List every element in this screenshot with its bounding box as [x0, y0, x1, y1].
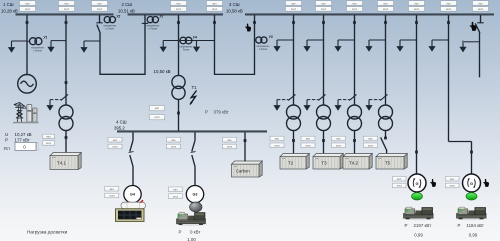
ground arrow on spare feeder — [459, 41, 466, 53]
generator G4 (left) — [124, 186, 141, 203]
button pair above feeder x=27.5 — [20, 1, 36, 11]
bus 1-2 СШ (left busbar segment) — [16, 13, 114, 15]
wire: grid infeed feeder from bus 1СШ — [26, 15, 28, 75]
svg-text:▪▪▪▪: ▪▪▪▪ — [316, 158, 319, 160]
ground arrow at T4 — [46, 100, 53, 111]
button pair above feeder x=416.5 — [409, 1, 425, 11]
open switch on spare feeder — [475, 23, 480, 32]
ground branch on G2 feeder — [432, 39, 449, 41]
svg-text:вкл: вкл — [368, 138, 373, 141]
upper ground branch on Т4.2 feeder — [338, 39, 355, 41]
bus 2 СШ busbar segment — [128, 13, 224, 15]
green status LED at G2 — [466, 193, 477, 200]
svg-text:вкл: вкл — [171, 139, 176, 142]
svg-text:откл: откл — [25, 8, 31, 11]
button pair above feeder x=66.5 — [59, 1, 75, 11]
svg-text:откл: откл — [176, 8, 182, 11]
upper ground branch on Т5 feeder — [369, 39, 386, 41]
svg-text:P: P — [5, 137, 8, 142]
svg-text:и Линия: и Линия — [33, 50, 42, 52]
button pair above feeder x=99.5 — [92, 1, 108, 11]
ground branch on grid infeed feeder — [12, 40, 28, 42]
svg-text:и Линия: и Линия — [149, 29, 158, 31]
junction on tie left leg — [213, 21, 216, 24]
svg-text:1,00: 1,00 — [187, 237, 196, 241]
svg-text:Уст: Уст — [4, 146, 11, 151]
lower disconnector branch on Т5 feeder — [369, 94, 388, 100]
svg-text:10,28 кВ: 10,28 кВ — [1, 9, 18, 14]
svg-text:и Линия: и Линия — [259, 49, 268, 51]
ground branch on T4 feeder (upper) — [51, 40, 66, 42]
lower disconnector branch on Т2 feeder — [277, 94, 296, 100]
svg-text:вкл: вкл — [46, 136, 51, 139]
svg-text:откл: откл — [46, 142, 52, 145]
transformer Т4 (two-winding) — [59, 105, 73, 131]
ground arrow on G2 feeder — [428, 40, 435, 52]
button pair at Т5 stub — [364, 136, 378, 147]
branch to ground on tie — [84, 40, 100, 42]
svg-text:вкл: вкл — [227, 139, 232, 142]
svg-text:вкл: вкл — [176, 2, 181, 5]
svg-text:0,99: 0,99 — [469, 233, 478, 238]
svg-text:У3: У3 — [269, 35, 273, 39]
svg-text:вкл: вкл — [352, 2, 357, 5]
genset image below G3 — [175, 212, 207, 226]
wire: Т4.2 secondary stub to load box — [354, 131, 356, 155]
svg-text:вкл: вкл — [321, 2, 326, 5]
junction on T4 feeder — [65, 21, 68, 24]
CT/VT symbol on tie 2-3 right leg — [256, 35, 273, 51]
generator G2 (right) — [463, 174, 481, 192]
svg-text:Т4.1: Т4.1 — [57, 160, 67, 165]
junction on Т1 feeder — [177, 21, 180, 24]
svg-text:вкл: вкл — [64, 2, 69, 5]
lower disconnector branch on Т4.2 feeder — [338, 94, 357, 100]
svg-text:и Линия: и Линия — [106, 29, 115, 31]
svg-text:1184 кВт: 1184 кВт — [467, 223, 484, 228]
svg-text:напряжение: напряжение — [31, 47, 45, 49]
svg-text:Т2: Т2 — [288, 161, 294, 166]
wire: G2 feeder jog — [449, 141, 472, 143]
svg-text:откл: откл — [291, 8, 297, 11]
buttons beside left block — [43, 134, 55, 145]
junction below Т2 — [292, 139, 295, 142]
wire: bus tie 1СШ side stub — [99, 15, 101, 23]
button pair at Т4.2 stub — [332, 136, 346, 147]
ground arrow on grid infeed feeder — [8, 41, 15, 53]
svg-text:2197 кВт: 2197 кВт — [414, 223, 432, 228]
lower ground arrow Т2 — [273, 100, 280, 111]
svg-text:откл: откл — [227, 146, 233, 149]
svg-text:Carbon: Carbon — [236, 168, 250, 173]
svg-text:вкл: вкл — [383, 2, 388, 5]
CT/VT symbol at 2СШ tie — [146, 15, 163, 31]
disconnector branch with ground — [50, 94, 68, 100]
svg-text:напряжение: напряжение — [257, 46, 271, 48]
svg-text:вкл: вкл — [397, 178, 402, 181]
ground arrow on Т1 feeder — [160, 41, 167, 53]
wire: unit feeder Т5 from bus 3СШ — [385, 15, 387, 106]
svg-text:вкл: вкл — [97, 2, 102, 5]
svg-text:вкл: вкл — [450, 178, 455, 181]
svg-text:вкл: вкл — [446, 2, 451, 5]
cylinder tank image below G4 — [121, 200, 146, 209]
svg-text:вкл: вкл — [212, 2, 217, 5]
svg-text:395,2: 395,2 — [114, 125, 125, 130]
svg-text:откл: откл — [478, 8, 484, 11]
svg-text:Т4.2: Т4.2 — [349, 161, 359, 166]
junction below Т3 — [322, 139, 325, 142]
hand cursor at G2 — [483, 179, 489, 187]
svg-text:вкл: вкл — [155, 107, 160, 110]
genset image below G1 — [402, 207, 435, 220]
measurement link Т1 feeder to tie — [163, 40, 214, 42]
junction above G1 — [415, 151, 418, 154]
junction on Carbon feeder — [244, 139, 247, 142]
button pair on G3 feeder — [167, 137, 181, 148]
junction below Т1 — [177, 112, 180, 115]
junction on infeed feeder — [26, 21, 29, 24]
wire: Т2 secondary stub to load box — [293, 131, 295, 155]
wire: unit feeder Т2 from bus 3СШ — [293, 15, 295, 106]
svg-text:0,99: 0,99 — [414, 233, 423, 238]
transformer Т5 (two-winding) — [379, 105, 393, 131]
solar panel image below G4 — [116, 209, 145, 222]
svg-text:вкл: вкл — [336, 138, 341, 141]
svg-text:P: P — [405, 223, 408, 228]
load box Т4.1 — [50, 153, 81, 170]
wire: feeder to generator G1 (right) — [416, 15, 418, 174]
svg-text:напряжение: напряжение — [180, 47, 194, 49]
svg-text:Т5: Т5 — [385, 161, 391, 166]
wire: unit feeder Т4.2 from bus 3СШ — [354, 15, 356, 106]
ground arrow on tie 1-2 — [80, 41, 87, 53]
button pair above feeder x=385.5 — [378, 1, 394, 11]
wire: G4 feeder from bus 4СШ — [132, 133, 134, 141]
svg-text:вкл: вкл — [113, 139, 118, 142]
lower ground arrow Т3 — [303, 100, 310, 111]
bus 3 СШ (right busbar segment) — [245, 13, 494, 15]
load box Т3 — [313, 154, 343, 170]
ground arrow on tie 2-3 — [193, 41, 200, 53]
svg-text:Нагрузка досветки: Нагрузка досветки — [27, 229, 68, 234]
hand cursor at tie 2-3 — [245, 24, 251, 32]
wire: feeder T4 from bus 1СШ — [65, 15, 67, 106]
svg-text:G3: G3 — [193, 193, 198, 197]
transformer Т4.2 (two-winding) — [348, 105, 362, 131]
hand cursor at G1 — [430, 179, 436, 187]
wire: tie 2-3 right leg to bus 3СШ — [254, 15, 256, 74]
open switch on tie — [97, 25, 100, 33]
svg-text:G: G — [470, 181, 473, 186]
button pair at G3 — [169, 187, 183, 198]
svg-text:откл: откл — [171, 146, 177, 149]
green status LED at G1 — [412, 193, 423, 200]
ground branch on spare feeder — [464, 41, 480, 43]
wire: Т5 secondary stub to load box (open switch) — [385, 131, 387, 139]
svg-text:▪▪▪▪: ▪▪▪▪ — [379, 158, 382, 160]
svg-text:Линия: Линия — [183, 50, 190, 52]
junction on G1 feeder — [415, 21, 418, 24]
wire: feeder to generator G2 (right) — [448, 15, 450, 142]
svg-text:откл: откл — [321, 8, 327, 11]
svg-text:вкл: вкл — [275, 138, 280, 141]
svg-text:откл: откл — [212, 8, 218, 11]
junction on Т4.2 feeder — [353, 21, 356, 24]
svg-text:3 СШ: 3 СШ — [229, 2, 240, 7]
wire: feeder Т1 from bus 2СШ — [178, 15, 180, 75]
svg-text:2 СШ: 2 СШ — [122, 2, 133, 7]
wire: T4 secondary down to Т4.1 box — [65, 131, 67, 154]
svg-text:177 кВт: 177 кВт — [15, 137, 30, 142]
wire: G3 feeder from bus 4СШ — [194, 133, 196, 141]
svg-text:откл: откл — [173, 195, 179, 198]
svg-text:вкл: вкл — [478, 2, 483, 5]
junction below Т5 — [384, 137, 387, 140]
wire: Т1 secondary to bus 4СШ — [178, 100, 180, 131]
svg-text:напряжение: напряжение — [103, 26, 117, 28]
svg-text:У4: У4 — [193, 35, 197, 39]
junction below Т4.2 — [353, 139, 356, 142]
CT circles on Т1 branch — [180, 35, 198, 51]
svg-text:P: P — [179, 230, 182, 235]
AC grid source circle with sine — [18, 75, 37, 94]
lower ground arrow Т5 — [365, 100, 372, 111]
wire: tie 2-3 bottom horizontal — [214, 73, 255, 75]
wire: tie down leg x=100 — [99, 33, 101, 75]
svg-text:откл: откл — [336, 145, 342, 148]
svg-text:0 кВт: 0 кВт — [190, 230, 200, 235]
svg-text:4 СШ: 4 СШ — [116, 119, 127, 124]
junction below Т4 — [65, 136, 68, 139]
svg-text:вкл: вкл — [291, 2, 296, 5]
hand cursor at spare feeder — [470, 22, 477, 31]
svg-text:вкл: вкл — [414, 2, 419, 5]
button pair above feeder x=178.5 — [171, 1, 187, 11]
motor ellipse below G3 — [190, 202, 202, 212]
ground arrow on G1 feeder — [396, 40, 403, 52]
button pair at Т2 stub — [270, 136, 284, 147]
button pair on Carbon feeder — [223, 137, 237, 148]
load box Carbon — [232, 161, 263, 177]
wire: Carbon feeder from bus 4СШ — [244, 133, 246, 162]
svg-text:10,58 кВ: 10,58 кВ — [226, 9, 243, 14]
svg-text:вкл: вкл — [25, 2, 30, 5]
svg-text:откл: откл — [450, 185, 456, 188]
junction on Т3 feeder — [322, 21, 325, 24]
svg-text:откл: откл — [352, 8, 358, 11]
svg-text:У2: У2 — [116, 15, 120, 19]
wire: unit feeder Т3 from bus 3СШ — [323, 15, 325, 106]
svg-text:вкл: вкл — [173, 189, 178, 192]
upper ground branch on Т3 feeder — [307, 39, 324, 41]
svg-text:откл: откл — [446, 8, 452, 11]
transformer Т2 (two-winding) — [287, 105, 301, 131]
svg-text:▪▪▪▪: ▪▪▪▪ — [53, 157, 56, 159]
load box Т5 — [376, 154, 407, 170]
upper ground arrow Т2 — [273, 40, 280, 52]
svg-text:напряжение: напряжение — [146, 26, 160, 28]
button pair above feeder x=293.5 — [286, 1, 302, 11]
svg-text:откл: откл — [305, 145, 311, 148]
wire: tie bottom horizontal — [99, 73, 145, 75]
svg-text:P: P — [205, 110, 208, 115]
svg-text:U: U — [5, 132, 8, 137]
lower disconnector branch on Т3 feeder — [307, 94, 326, 100]
svg-text:откл: откл — [368, 145, 374, 148]
load box Т2 — [280, 154, 309, 170]
svg-text:откл: откл — [414, 8, 420, 11]
junction on Т2 feeder — [292, 21, 295, 24]
button pair at G1 (right) — [393, 176, 407, 187]
svg-text:379 кВт: 379 кВт — [214, 110, 229, 115]
svg-text:Т3: Т3 — [321, 161, 327, 166]
wire: tie up leg to 2СШ x=145 — [144, 15, 146, 74]
svg-text:вкл: вкл — [110, 188, 115, 191]
junction on G2 feeder — [447, 21, 450, 24]
wire: Т3 secondary stub to load box — [323, 131, 325, 155]
svg-text:откл: откл — [64, 8, 70, 11]
ground branch on G1 feeder — [400, 39, 417, 41]
button pair at G2 (right) — [446, 176, 460, 187]
svg-text:10,27 кВ: 10,27 кВ — [15, 132, 32, 137]
upper ground branch on Т2 feeder — [277, 39, 294, 41]
open switch on Т5 stub — [381, 137, 387, 150]
button pair above feeder x=354.5 — [347, 1, 363, 11]
genset image below G2 — [455, 207, 488, 220]
svg-text:▪▪▪▪: ▪▪▪▪ — [283, 158, 286, 160]
lightning fault symbol at Т1 — [190, 91, 196, 105]
svg-text:G: G — [415, 181, 418, 186]
button pair above feeder x=214.5 — [207, 1, 223, 11]
ground arrow on T4 feeder (upper) — [47, 41, 54, 53]
upper ground arrow Т5 — [365, 40, 372, 52]
junction on T4 feeder (mid) — [65, 81, 68, 84]
upper ground arrow Т3 — [303, 40, 310, 52]
button pair at G4 — [105, 186, 119, 197]
svg-text:откл: откл — [383, 8, 389, 11]
generator G1 (right) — [408, 174, 426, 192]
CT/VT symbol on grid infeed feeder — [28, 35, 48, 52]
button pair at Т3 stub — [301, 136, 315, 147]
upper ground arrow Т4.2 — [334, 40, 341, 52]
svg-text:откл: откл — [109, 195, 115, 198]
junction above G2 — [470, 151, 473, 154]
power station clipart — [13, 103, 39, 124]
junction on tie right leg — [253, 21, 256, 24]
svg-text:У2: У2 — [159, 15, 163, 19]
lower ground arrow Т4.2 — [334, 100, 341, 111]
svg-text:откл: откл — [97, 8, 103, 11]
junction on Т5 feeder — [384, 21, 387, 24]
svg-text:откл: откл — [274, 145, 280, 148]
svg-text:10,50 кВ: 10,50 кВ — [154, 69, 171, 74]
button pair on G4 feeder — [108, 137, 122, 148]
svg-text:вкл: вкл — [306, 138, 311, 141]
wire: spare feeder stub (open) — [480, 15, 482, 23]
load box Т4.2 — [343, 154, 372, 170]
svg-text:10,51 кВ: 10,51 кВ — [118, 9, 135, 14]
svg-text:откл: откл — [112, 146, 118, 149]
generator G3 — [186, 186, 203, 203]
transformer Т1 (two-winding) — [172, 75, 185, 99]
button pair above feeder x=323.5 — [316, 1, 332, 11]
button pair above feeder x=480.5 — [473, 1, 489, 11]
svg-text:У1: У1 — [43, 35, 47, 39]
svg-text:откл: откл — [397, 185, 403, 188]
bus 4 СШ (lower busbar) — [117, 130, 267, 132]
svg-text:Т1: Т1 — [192, 85, 198, 90]
transformer Т3 (two-winding) — [317, 105, 331, 131]
CT/VT symbol at 1СШ tie — [103, 15, 120, 31]
svg-text:откл: откл — [154, 116, 160, 119]
buttons left of Т1 secondary — [150, 106, 165, 120]
button pair above feeder x=448.5 — [441, 1, 457, 11]
svg-text:P: P — [458, 223, 461, 228]
wire: tie 2СШ-3СШ left leg — [214, 15, 216, 74]
svg-text:1 СШ: 1 СШ — [3, 2, 14, 7]
